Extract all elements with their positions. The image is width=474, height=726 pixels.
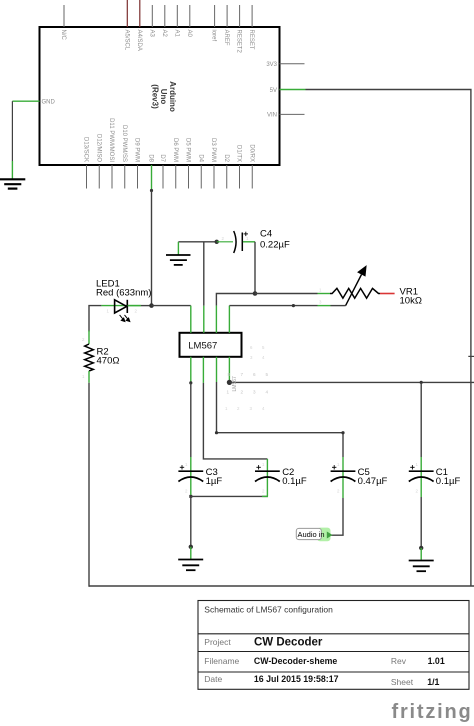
wire LM567 pin5 to VR1 wiper: [229, 305, 317, 307]
svg-text:D4: D4: [197, 154, 203, 162]
node pin1 leg end dot: [189, 381, 192, 384]
pin D12/MISO stub: [98, 165, 100, 189]
svg-text:(Rev3): (Rev3): [151, 84, 160, 109]
svg-text:D7: D7: [159, 154, 165, 162]
wire stub on 5V rail right edge: [468, 355, 474, 357]
capacitor C5 plus sign: [332, 465, 336, 469]
wire LM567 pin2 to C2: [203, 383, 267, 459]
svg-text:A0: A0: [186, 30, 192, 38]
LM567 pin 1 bottom leg (green): [190, 357, 192, 383]
LM567 pin 5 top leg (green): [228, 306, 230, 333]
svg-text:N/C: N/C: [60, 30, 66, 41]
wire GND down to ground: [11, 101, 13, 161]
svg-text:1: 1: [227, 390, 230, 395]
svg-text:D2: D2: [223, 154, 229, 162]
ghost faint row 1234 lower: [225, 406, 265, 411]
svg-text:A1: A1: [173, 30, 179, 38]
LED1 symbol: [115, 300, 128, 313]
capacitor C1 plus sign: [410, 465, 414, 469]
pin ioref stub: [214, 5, 216, 27]
wire A4/SDA (red, off-canvas): [139, 0, 141, 27]
pin D1/TX stub: [239, 165, 241, 189]
svg-text:10kΩ: 10kΩ: [400, 295, 422, 306]
wire C1 up tap: [420, 382, 422, 457]
svg-text:6: 6: [253, 372, 256, 377]
svg-text:1.01: 1.01: [428, 656, 445, 666]
svg-text:2: 2: [241, 390, 244, 395]
node wiper wire segment dot: [292, 304, 295, 307]
capacitor C2 symbol: [255, 471, 280, 481]
pin N/C stub: [63, 5, 65, 27]
ground symbol (C3): [178, 560, 203, 571]
VR1 wiper leg (green): [318, 305, 331, 307]
pin A3 stub: [151, 5, 153, 27]
op-amp U1 LM567 box: [180, 333, 242, 357]
capacitor C4 plus sign: [244, 232, 248, 236]
wire LM567 pin7 up to C4 ground node: [203, 242, 205, 306]
ground symbol (C4 ground): [166, 255, 191, 265]
VR1 wiper wire bend: [331, 305, 346, 307]
svg-text:Project: Project: [204, 637, 231, 647]
LM567 pin 7 top leg (green): [203, 306, 205, 333]
svg-text:8: 8: [228, 372, 231, 377]
svg-text:A5/SCL: A5/SCL: [123, 30, 129, 51]
svg-text:CW-Decoder-sheme: CW-Decoder-sheme: [254, 656, 338, 666]
pin 3V3 stub: [280, 63, 305, 65]
wire R2 top to LED anode: [89, 306, 101, 332]
node pin3 corner dot: [215, 431, 218, 434]
svg-text:A4/SDA: A4/SDA: [136, 30, 142, 51]
svg-text:Red (633nm): Red (633nm): [96, 288, 151, 299]
pin A0 stub: [189, 5, 191, 27]
node Audio in label box: [296, 528, 321, 539]
R2 top leg (green): [88, 331, 90, 345]
svg-text:RESET: RESET: [248, 30, 254, 50]
junction dot D8 leg end: [150, 189, 153, 192]
capacitor C3 plus sign: [180, 465, 184, 469]
LED1 anode leg (green): [101, 305, 140, 307]
R2 bottom leg (green): [88, 371, 90, 383]
wire R2 bottom to 5V loop: [88, 383, 90, 587]
svg-text:1/1: 1/1: [427, 677, 439, 687]
LM567 pin 4 bottom leg (green): [228, 357, 230, 383]
svg-text:0.1µF: 0.1µF: [282, 476, 307, 487]
svg-text:4: 4: [266, 390, 269, 395]
title block frame: [198, 601, 469, 690]
wire D8 down to LED node: [151, 191, 153, 306]
svg-text:0.47µF: 0.47µF: [358, 476, 388, 487]
pin 5V leg (green): [280, 89, 306, 91]
svg-text:Sheet: Sheet: [391, 677, 414, 687]
pin GND leg (green): [12, 100, 39, 102]
pin D10 PWM/SS stub: [124, 165, 126, 189]
svg-text:0.22µF: 0.22µF: [260, 240, 290, 251]
svg-text:CW Decoder: CW Decoder: [254, 636, 323, 648]
ghost faint marks right of LM567: [250, 345, 265, 360]
capacitor C4 right leg (green): [243, 241, 255, 243]
capacitor C1 leg (green): [420, 457, 422, 497]
svg-text:RESET2: RESET2: [236, 30, 242, 54]
svg-text:GND: GND: [42, 100, 56, 106]
pin A2 stub: [164, 5, 166, 27]
pin D7 stub: [162, 165, 164, 189]
wire C3 down to ground: [190, 496, 192, 546]
svg-text:5V: 5V: [270, 88, 277, 94]
capacitor C2 bottom leg (green): [262, 495, 268, 497]
svg-text:Filename: Filename: [204, 656, 239, 666]
pin D8 leg (green): [151, 165, 153, 191]
wire LM567 pin4 to 5V rail: [229, 381, 474, 383]
node C5 corner dot: [341, 431, 344, 434]
wire node to VR1 left: [255, 293, 318, 295]
LM567 pin 3 bottom leg (green): [216, 357, 218, 382]
capacitor C2 leg (green): [266, 459, 268, 497]
ground symbol (Arduino GND): [0, 179, 25, 188]
svg-text:1µF: 1µF: [206, 476, 223, 487]
node C1 ground junction dot: [419, 546, 423, 550]
C3 ground pin leg (green): [190, 547, 192, 559]
node C4-left junction dot: [215, 240, 219, 244]
VR1 wiper arrow: [346, 267, 366, 306]
svg-text:D0/RX: D0/RX: [248, 144, 254, 162]
svg-text:C4: C4: [260, 229, 272, 240]
svg-text:Schematic of LM567 configurati: Schematic of LM567 configuration: [204, 605, 333, 615]
capacitor C4 left leg (green): [217, 241, 233, 243]
svg-text:A3: A3: [148, 30, 154, 38]
wire ground to C4 node: [178, 241, 216, 243]
svg-text:ioref: ioref: [211, 30, 217, 42]
LED1 cathode leg (green): [128, 305, 141, 307]
Audio in green tip triangle: [327, 532, 333, 539]
node pin4 junction dot: [227, 380, 232, 385]
svg-text:D10 PWM/SS: D10 PWM/SS: [121, 125, 127, 162]
svg-text:470Ω: 470Ω: [97, 356, 120, 367]
svg-text:D6 PWM: D6 PWM: [172, 138, 178, 162]
svg-text:3: 3: [253, 390, 256, 395]
wire LED cathode to node: [141, 305, 152, 307]
ghost DIP pin numbers row 1234: [227, 390, 269, 395]
svg-text:Audio in: Audio in: [298, 530, 325, 539]
wire C4 right down to VR1 node: [254, 242, 256, 294]
wire C5 to audio in: [330, 498, 343, 535]
capacitor C5 symbol: [331, 471, 356, 481]
LED1 emission arrows: [120, 315, 130, 322]
svg-text:5: 5: [266, 372, 269, 377]
pin A1 stub: [176, 5, 178, 27]
VR1 pin 1 leg (green): [318, 293, 331, 295]
svg-text:Date: Date: [204, 674, 222, 684]
svg-text:D9 PWM: D9 PWM: [134, 138, 140, 162]
wire LM567 pin3 to C5: [217, 382, 344, 457]
VR1 red stub: [380, 293, 395, 295]
C1 ground pin leg (green): [420, 548, 422, 560]
svg-text:A2: A2: [161, 30, 167, 38]
potentiometer VR1 zigzag: [330, 288, 380, 298]
node LED/D8 junction dot: [149, 303, 154, 308]
capacitor C2 plus sign: [256, 465, 260, 469]
resistor R2 zigzag: [85, 344, 94, 371]
ground pin leg (green): [11, 161, 13, 179]
svg-text:AREF: AREF: [223, 30, 229, 46]
node C1 tap dot: [420, 381, 423, 384]
capacitor C4 symbol: [234, 231, 243, 253]
svg-text:0.1µF: 0.1µF: [436, 476, 461, 487]
svg-text:16 Jul 2015 19:58:17: 16 Jul 2015 19:58:17: [254, 674, 339, 684]
pin RESET stub: [251, 5, 253, 27]
svg-text:fritzing: fritzing: [392, 701, 473, 723]
svg-text:3V3: 3V3: [266, 62, 277, 68]
pin RESET2 stub: [239, 5, 241, 27]
wire C3 to C2 bottoms: [191, 495, 268, 497]
wire node to LM567 pin8: [152, 305, 191, 307]
pin D2 stub: [226, 165, 228, 189]
capacitor C3 leg (green): [190, 457, 192, 496]
capacitor C1 symbol: [409, 471, 434, 481]
pin AREF stub: [226, 5, 228, 27]
Arduino Uno label (Rev3): [151, 81, 177, 112]
Audio in green highlight: [317, 528, 331, 542]
svg-text:D13/SCK: D13/SCK: [83, 137, 89, 162]
svg-text:D12/MISO: D12/MISO: [95, 134, 101, 162]
LM567 pin 6 top leg (green): [215, 306, 217, 333]
svg-text:D3 PWM: D3 PWM: [210, 138, 216, 162]
pin D9 PWM stub: [137, 165, 139, 189]
wire LM567 pin1 to C3: [190, 383, 192, 457]
wire 5V rail: right, down right edge, bottom, to R2: [306, 90, 471, 587]
pin D11 PWM/MOSI stub: [111, 165, 113, 189]
ground pin leg (green) at C4: [177, 242, 179, 255]
pin D0/RX stub: [251, 165, 253, 189]
pin D4 stub: [200, 165, 202, 189]
wire LM567 pin6 up and to C4 node: [216, 294, 255, 306]
ghost DIP pin numbers row 8765: [228, 372, 269, 377]
svg-text:D5 PWM: D5 PWM: [185, 138, 191, 162]
pin D5 PWM stub: [188, 165, 190, 189]
Arduino Uno box: [40, 27, 280, 165]
LM567 pin 8 top leg (green): [190, 306, 192, 333]
wire A5/SCL (red, off-canvas): [126, 0, 128, 27]
svg-text:D8: D8: [148, 154, 154, 162]
svg-text:VIN: VIN: [267, 113, 277, 119]
svg-text:D1/TX: D1/TX: [236, 145, 242, 162]
node C4/VR1 junction dot: [253, 291, 258, 296]
svg-text:LM567: LM567: [188, 340, 217, 351]
ghost tiny pin digits: [82, 236, 419, 494]
node C3 bottom junction: [189, 495, 192, 498]
svg-text:D11 PWM/MOSI: D11 PWM/MOSI: [108, 118, 114, 162]
capacitor C3 symbol: [178, 471, 203, 481]
wire C1 down to ground: [420, 497, 422, 548]
svg-text:LM567: LM567: [232, 376, 238, 392]
capacitor C5 leg (green): [342, 457, 344, 498]
pin D3 PWM stub: [213, 165, 215, 189]
pin D6 PWM stub: [175, 165, 177, 189]
pin D13/SCK stub: [86, 165, 88, 189]
svg-text:7: 7: [241, 372, 244, 377]
LM567 pin 2 bottom leg (green): [202, 357, 204, 383]
svg-text:Rev: Rev: [391, 656, 407, 666]
pin VIN stub: [280, 113, 305, 115]
ground symbol (C1): [409, 561, 434, 572]
node C3 ground junction dot: [189, 545, 193, 549]
